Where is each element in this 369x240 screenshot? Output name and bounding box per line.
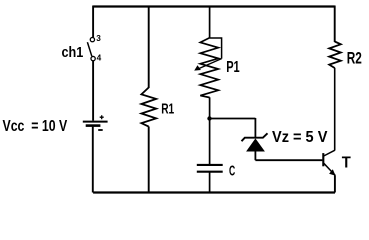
- polarity mark -: [98, 129, 103, 131]
- wire top supply bus: [93, 5, 335, 7]
- resistor R1: [141, 88, 156, 127]
- switch blade (open): [87, 42, 91, 56]
- switch terminal circle pin 3: [90, 37, 94, 41]
- wire junction to capacitor: [209, 119, 211, 165]
- battery Vcc: [83, 115, 108, 130]
- wire R1 column from top bus: [148, 6, 150, 89]
- resistor R2: [329, 42, 341, 69]
- transistor base bar: [322, 153, 324, 166]
- switch terminal circle pin 4: [91, 56, 95, 60]
- svg-text:R2: R2: [347, 50, 362, 68]
- svg-text:R1: R1: [161, 100, 174, 117]
- wire zener top: [254, 118, 256, 138]
- svg-text:Vz = 5 V: Vz = 5 V: [272, 129, 328, 146]
- svg-text:P1: P1: [226, 59, 240, 76]
- zener diode Vz: [242, 133, 268, 151]
- wiper arrow shaft: [197, 59, 222, 70]
- wire emitter to bottom bus: [334, 175, 336, 192]
- svg-text:4: 4: [97, 53, 102, 63]
- potentiometer body zigzag: [200, 38, 218, 98]
- wire battery to bottom bus: [92, 127, 94, 193]
- svg-text:C: C: [229, 163, 236, 179]
- wire switch column from top bus: [92, 6, 94, 38]
- node junction dot: [207, 116, 211, 120]
- potentiometer P1: [194, 38, 221, 98]
- wire junction to zener: [210, 118, 256, 120]
- wire switch to battery: [92, 61, 94, 121]
- wire base: [255, 159, 322, 161]
- capacitor top plate: [197, 164, 223, 166]
- capacitor C: [197, 165, 223, 172]
- wire bottom ground bus: [93, 191, 335, 193]
- svg-text:Vcc = 10 V: Vcc = 10 V: [3, 118, 68, 135]
- capacitor bottom plate: [197, 171, 223, 173]
- svg-text:ch1: ch1: [62, 44, 84, 61]
- battery negative plate: [86, 124, 101, 127]
- polarity mark +: [100, 115, 104, 119]
- transistor emitter lead: [324, 163, 336, 175]
- switch ch1: [87, 37, 95, 60]
- transistor collector lead: [324, 150, 335, 156]
- wire capacitor to bottom bus: [209, 172, 211, 193]
- transistor T: [323, 150, 335, 176]
- transistor emitter arrowhead: [329, 169, 336, 175]
- wire wiper loop to top terminal: [210, 38, 222, 59]
- wire P1 to junction: [209, 97, 211, 119]
- svg-text:T: T: [342, 155, 352, 172]
- wire R2 column from top bus: [334, 6, 336, 43]
- wire R1 to bottom bus: [148, 127, 150, 193]
- zener cathode bar with bent ends: [242, 133, 268, 141]
- wire zener bottom: [254, 151, 256, 160]
- wiper arrowhead: [194, 65, 201, 70]
- svg-text:3: 3: [96, 33, 101, 43]
- wire P1 column from top bus: [209, 6, 211, 39]
- zener anode triangle: [246, 138, 265, 151]
- wire R2 to collector: [334, 68, 336, 151]
- battery positive plate: [83, 121, 108, 123]
